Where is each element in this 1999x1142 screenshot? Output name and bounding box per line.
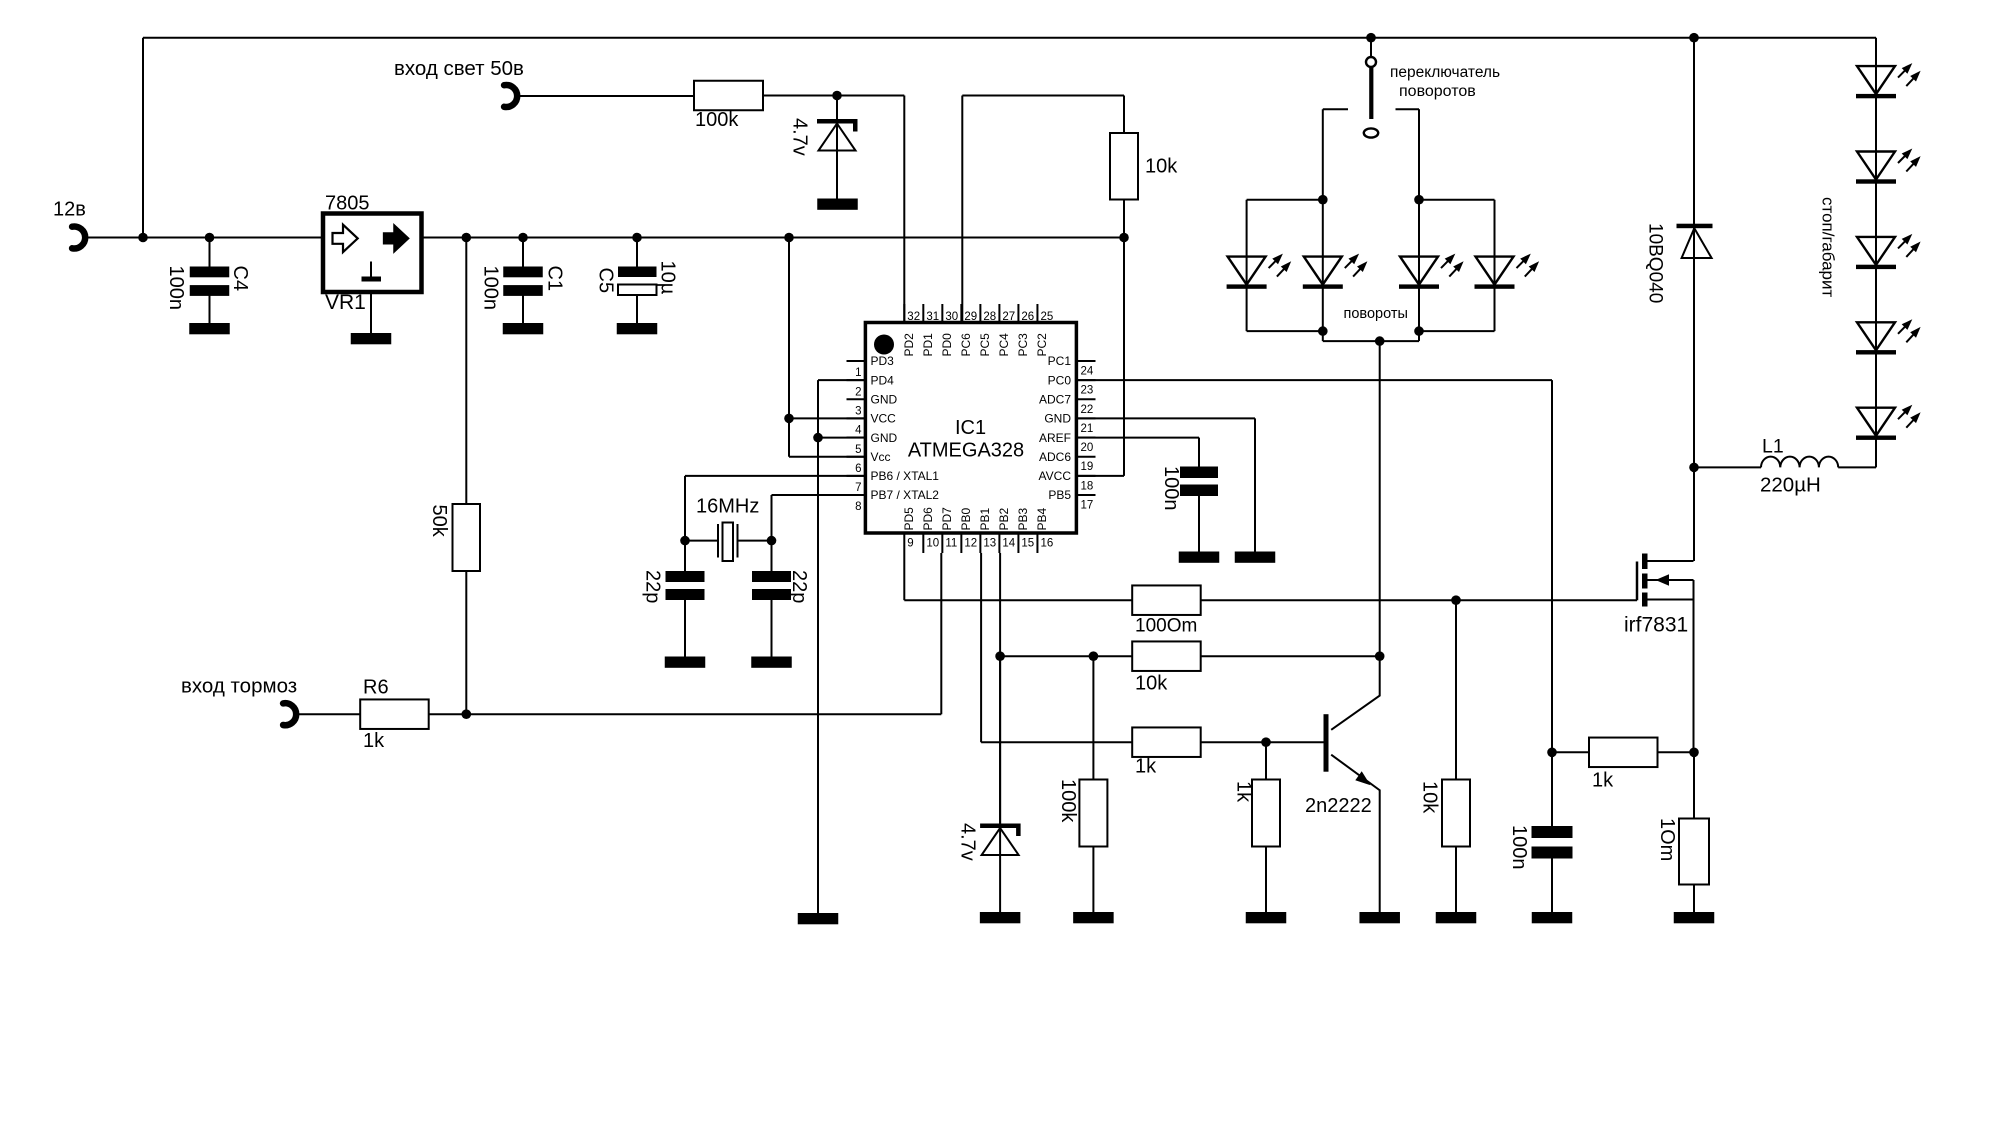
pin 5 GND stub [847, 437, 866, 439]
pin number 6 [855, 463, 861, 475]
svg-text:16MHz: 16MHz [696, 496, 759, 518]
node base 1k tap [1261, 737, 1271, 747]
wire rail to AVCC [1077, 238, 1125, 476]
svg-text:7: 7 [855, 482, 861, 494]
wire 100k upper [1092, 656, 1094, 779]
zener diode 4.7v (light) [817, 96, 858, 199]
svg-text:22p: 22p [642, 570, 664, 603]
svg-text:22: 22 [1081, 404, 1094, 416]
svg-text:19: 19 [1081, 461, 1094, 473]
node crystal left [680, 536, 690, 546]
svg-text:PB4: PB4 [1035, 507, 1049, 530]
svg-text:1k: 1k [1135, 756, 1157, 778]
svg-text:9: 9 [907, 538, 913, 550]
node C1 tap [518, 233, 528, 243]
svg-text:16: 16 [1040, 538, 1053, 550]
ground 1k (base) [1246, 912, 1287, 923]
wire R6 to PD7 [428, 553, 941, 714]
svg-text:220µH: 220µH [1760, 474, 1821, 497]
pin label PB5 [1048, 488, 1071, 502]
pin 18 AVCC stub [1076, 475, 1095, 477]
transistor Q1 2n2222 base bar [1324, 714, 1329, 772]
mosfet source link [1648, 599, 1694, 601]
svg-text:вход свет 50в: вход свет 50в [394, 57, 524, 80]
label irf7831 [1624, 614, 1688, 637]
pin number 26 [1021, 311, 1034, 323]
wire junction to 1k [1552, 751, 1590, 753]
wire source to 1Om [1693, 752, 1695, 818]
svg-text:18: 18 [1081, 480, 1094, 492]
svg-text:ADC6: ADC6 [1039, 450, 1071, 464]
pin 1 PD3 stub [847, 360, 866, 362]
svg-text:стоп/габарит: стоп/габарит [1819, 197, 1838, 298]
wire 100Om to gate [1200, 599, 1637, 601]
svg-text:32: 32 [907, 311, 920, 323]
pin number 25 [1040, 311, 1053, 323]
wire PB2 to 10k [1000, 655, 1133, 657]
diode 10BQ040 [1677, 38, 1713, 561]
label 1k (PB1) [1135, 756, 1157, 778]
label 100k [695, 109, 739, 131]
svg-text:10k: 10k [1419, 781, 1441, 814]
wire to pin4 VCC [789, 417, 866, 419]
label 10k (reset) [1145, 156, 1178, 178]
svg-text:C4: C4 [229, 266, 251, 292]
wire PB2 zener [999, 656, 1001, 823]
svg-text:23: 23 [1081, 385, 1094, 397]
svg-text:4.7v: 4.7v [957, 823, 979, 861]
pin number 29 [964, 311, 977, 323]
svg-text:PD2: PD2 [902, 333, 916, 357]
pin 23 PC0 stub [1076, 379, 1095, 381]
pin number 32 [907, 311, 920, 323]
pin number 1 [855, 367, 861, 379]
svg-text:4.7v: 4.7v [789, 118, 811, 156]
wire 1k to base [1200, 741, 1324, 743]
svg-text:8: 8 [855, 501, 861, 513]
svg-text:100Om: 100Om [1135, 616, 1197, 637]
pin number 12 [964, 538, 977, 550]
label 220µH [1760, 474, 1821, 497]
pin number 30 [945, 311, 958, 323]
pin 6 Vcc stub [847, 456, 866, 458]
led stop D9 [1856, 405, 1921, 440]
filled arrow inside VR1 [384, 225, 409, 252]
node turn center tap [1375, 336, 1385, 346]
label 22p left [642, 570, 664, 603]
label 1k (R6) [363, 730, 385, 752]
transistor Q1 emitter [1331, 755, 1380, 912]
resistor 1k (base) [1252, 780, 1280, 847]
pin 21 GND stub [1076, 417, 1095, 419]
node VCC rail tap [784, 233, 794, 243]
svg-text:100k: 100k [695, 109, 739, 131]
wire 5V rail [422, 237, 1125, 239]
capacitor 100n (AREF) [1180, 467, 1218, 552]
label ATMEGA328 [908, 440, 1024, 462]
svg-text:GND: GND [871, 431, 898, 445]
svg-text:10µ: 10µ [657, 261, 679, 295]
pin label PD4 [871, 373, 895, 387]
pin number 23 [1081, 385, 1094, 397]
pin number 31 [926, 311, 939, 323]
ic IC1 ATMEGA328 body [865, 323, 1076, 534]
pin label PD6 [921, 507, 935, 531]
wire base 1k lower [1265, 847, 1267, 913]
label L1 [1762, 436, 1784, 458]
ground 22p right [751, 657, 792, 668]
node PC0/1k junction [1547, 748, 1557, 758]
svg-text:PD6: PD6 [921, 507, 935, 531]
label R6 [363, 677, 389, 699]
label 100n (AREF) [1160, 466, 1182, 511]
wire turn tops [1247, 199, 1495, 201]
pin 4 VCC stub [847, 417, 866, 419]
pin number 16 [1040, 538, 1053, 550]
label 16MHz [696, 496, 759, 518]
pin label GND [871, 431, 898, 445]
pin number 28 [983, 311, 996, 323]
svg-text:12в: 12в [53, 199, 86, 221]
pin number 19 [1081, 461, 1094, 473]
svg-text:31: 31 [926, 311, 939, 323]
svg-text:100n: 100n [165, 266, 187, 311]
svg-text:PB2: PB2 [997, 507, 1011, 530]
label 10µ [657, 261, 679, 295]
pin label PD0 [940, 333, 954, 357]
label стоп/габарит [1819, 197, 1838, 298]
label C5 [595, 268, 617, 294]
pin number 21 [1081, 423, 1094, 435]
node turn right top [1414, 195, 1424, 205]
pin 32 PD2 stub [903, 304, 905, 323]
led turn D4 [1475, 200, 1540, 331]
label 22p right [788, 570, 810, 603]
pin label ADC6 [1039, 450, 1071, 464]
wire pin2 PD4 link [818, 380, 866, 913]
svg-text:AREF: AREF [1039, 431, 1071, 445]
svg-text:VCC: VCC [871, 412, 897, 426]
wire PB1 down [981, 553, 1133, 742]
ground IC GND line [798, 913, 839, 924]
pin1 mark [874, 335, 894, 355]
pin label PC5 [978, 333, 992, 357]
pin 15 PB3 stub [1017, 533, 1019, 553]
ground C4 [189, 323, 230, 334]
pin label PC3 [1016, 333, 1030, 357]
label 10k (gate) [1419, 781, 1441, 814]
pin label VCC [871, 412, 897, 426]
pin number 22 [1081, 404, 1094, 416]
node 12V/top-rail junction [138, 233, 148, 243]
ground C1 [503, 323, 544, 334]
pin number 10 [926, 538, 939, 550]
svg-text:25: 25 [1040, 311, 1053, 323]
ground emitter [1359, 912, 1400, 923]
pin 13 PB1 stub [979, 533, 981, 553]
pin 31 PD1 stub [922, 304, 924, 323]
connector J1 12в input [72, 227, 85, 249]
pin label Vcc [871, 450, 891, 464]
label 4.7v (PB2) [957, 823, 979, 861]
node 100k tap [1089, 651, 1099, 661]
wire PC0 [1077, 380, 1553, 826]
pin number 2 [855, 386, 861, 398]
resistor 50k [453, 504, 481, 571]
wire switch bracket right [1396, 109, 1420, 200]
pin 17 PB5 stub [1076, 494, 1095, 496]
label 10k (PB2) [1135, 673, 1168, 695]
label 50k [428, 505, 450, 538]
wire source down [1693, 580, 1695, 752]
led turn D2 [1303, 200, 1368, 331]
svg-text:1k: 1k [363, 730, 385, 752]
label C1 [544, 266, 566, 292]
pin 7 PB6 / XTAL1 stub [847, 475, 866, 477]
pin label PD5 [902, 507, 916, 531]
pin number 15 [1021, 538, 1034, 550]
ground VR1 [351, 333, 392, 344]
ground 100k [1073, 912, 1114, 923]
pin number 13 [983, 538, 996, 550]
svg-text:6: 6 [855, 463, 861, 475]
label 100k (PB2) [1057, 779, 1079, 823]
svg-text:29: 29 [964, 311, 977, 323]
svg-text:переключатель: переключатель [1390, 64, 1500, 81]
node source/1k junction [1689, 748, 1699, 758]
ground pin21 [1235, 552, 1276, 563]
inductor L1 [1694, 457, 1876, 468]
label 4.7v (light) [789, 118, 811, 156]
wire to pin6 Vcc [789, 456, 866, 458]
svg-text:100n: 100n [1160, 466, 1182, 511]
mosfet body arrow [1648, 574, 1694, 585]
ground 100n (PC0) [1532, 912, 1573, 923]
svg-text:PD7: PD7 [940, 507, 954, 531]
pin 25 PC2 stub [1036, 304, 1038, 323]
svg-text:PB0: PB0 [959, 507, 973, 530]
pin number 20 [1081, 442, 1094, 454]
svg-text:100n: 100n [1508, 825, 1530, 870]
node turn left top [1318, 195, 1328, 205]
label 7805 [325, 193, 370, 215]
svg-text:GND: GND [1044, 412, 1071, 426]
svg-text:PD1: PD1 [921, 333, 935, 357]
svg-text:3: 3 [855, 405, 861, 417]
wire turn bottoms [1247, 331, 1495, 341]
pin 9 PD5 stub [903, 533, 905, 553]
wire AREF [1077, 438, 1200, 467]
pin label ADC7 [1039, 392, 1071, 406]
node C4 tap [205, 233, 215, 243]
svg-text:15: 15 [1021, 538, 1034, 550]
svg-text:вход тормоз: вход тормоз [181, 675, 297, 698]
wire base 1k upper [1265, 742, 1267, 779]
svg-text:PC0: PC0 [1048, 373, 1072, 387]
svg-text:2n2222: 2n2222 [1305, 795, 1372, 817]
svg-text:28: 28 [983, 311, 996, 323]
node AVCC rail junction [1119, 233, 1129, 243]
svg-text:22p: 22p [788, 570, 810, 603]
ground 10k (gate) [1436, 912, 1477, 923]
ground 1Om [1674, 912, 1715, 923]
connector light input [504, 85, 517, 107]
pin number 27 [1002, 311, 1015, 323]
svg-text:VR1: VR1 [325, 291, 366, 314]
pin label PB1 [978, 507, 992, 530]
wire 1k to source [1657, 751, 1695, 753]
mosfet channel bars [1642, 554, 1648, 607]
svg-text:C1: C1 [544, 266, 566, 292]
label 100Om [1135, 616, 1197, 637]
wire XTAL1 pin7 [685, 476, 866, 541]
pin label GND [871, 392, 898, 406]
svg-text:GND: GND [871, 392, 898, 406]
ground glyph inside VR1 [362, 262, 382, 282]
svg-text:12: 12 [964, 538, 977, 550]
pin 16 PB4 stub [1036, 533, 1038, 553]
pin 14 PB2 stub [998, 533, 1000, 553]
svg-text:PD0: PD0 [940, 333, 954, 357]
pin label GND [1044, 412, 1071, 426]
pin 20 AREF stub [1076, 437, 1095, 439]
label 1k (base) [1233, 781, 1255, 803]
wire switch drop [1370, 38, 1372, 58]
svg-text:PB3: PB3 [1016, 507, 1030, 530]
resistor R6 1k [360, 699, 429, 729]
wire 100k lower [1092, 847, 1094, 913]
wire 10k to rail [1123, 200, 1125, 238]
node pin5 GND junction [813, 433, 823, 443]
pin number 8 [855, 501, 861, 513]
label поворотов [1399, 83, 1476, 100]
pin number 18 [1081, 480, 1094, 492]
ground zener (light) [817, 199, 858, 210]
pin label PC6 [959, 333, 973, 357]
wire PD5 to gate [904, 553, 1133, 600]
led stop D7 [1856, 234, 1921, 269]
pin 12 PB0 stub [960, 533, 962, 553]
node turn left bottom [1318, 326, 1328, 336]
svg-text:повороты: повороты [1344, 306, 1408, 322]
resistor 10k (gate) [1442, 780, 1470, 847]
capacitor 100n (PC0) [1532, 826, 1573, 912]
svg-text:17: 17 [1081, 499, 1094, 511]
svg-text:ADC7: ADC7 [1039, 392, 1071, 406]
wire riser to top rail [142, 38, 144, 238]
svg-text:PC2: PC2 [1035, 333, 1049, 357]
svg-text:C5: C5 [595, 268, 617, 294]
ground 22p left [665, 657, 706, 668]
led turn D3 [1399, 200, 1464, 331]
crystal 16MHz [685, 523, 772, 562]
svg-text:PB6 / XTAL1: PB6 / XTAL1 [871, 469, 940, 483]
led turn D1 [1227, 200, 1292, 331]
transistor Q1 collector [1331, 656, 1380, 730]
svg-text:PC3: PC3 [1016, 333, 1030, 357]
node VCC pin4 junction [784, 414, 794, 424]
label вход свет 50в [394, 57, 524, 80]
pin 24 PC1 stub [1076, 360, 1095, 362]
pin label PD7 [940, 507, 954, 531]
svg-text:20: 20 [1081, 442, 1094, 454]
pin label AREF [1039, 431, 1071, 445]
pin label PD1 [921, 333, 935, 357]
svg-text:1k: 1k [1233, 781, 1255, 803]
label повороты [1344, 306, 1408, 322]
svg-text:27: 27 [1002, 311, 1015, 323]
svg-text:10k: 10k [1135, 673, 1168, 695]
label C4 [229, 266, 251, 292]
pin 30 PD0 stub [941, 304, 943, 323]
svg-text:R6: R6 [363, 677, 389, 699]
wire GND pin21 [1077, 418, 1256, 551]
connector brake input [283, 703, 296, 725]
label 100n (C1) [480, 266, 502, 311]
svg-text:Vcc: Vcc [871, 450, 891, 464]
pin label AVCC [1039, 469, 1072, 483]
svg-text:PC6: PC6 [959, 333, 973, 357]
capacitor C4 [190, 238, 230, 324]
label переключатель [1390, 64, 1500, 81]
wire gate 10k upper [1455, 600, 1457, 779]
svg-text:30: 30 [945, 311, 958, 323]
pin label PB2 [997, 507, 1011, 530]
svg-text:13: 13 [983, 538, 996, 550]
node turn right bottom [1414, 326, 1424, 336]
pin number 7 [855, 482, 861, 494]
pin number 5 [855, 444, 861, 456]
svg-text:4: 4 [855, 425, 862, 437]
switch contact top [1366, 57, 1376, 67]
label 100n (C4) [165, 266, 187, 311]
svg-text:PD4: PD4 [871, 373, 895, 387]
node gate 10k tap [1451, 595, 1461, 605]
node drain/L1 junction [1689, 463, 1699, 473]
pin label PC1 [1048, 354, 1072, 368]
led stop D5 [1856, 63, 1921, 98]
label вход тормоз [181, 675, 297, 698]
node crystal right [767, 536, 777, 546]
pin number 17 [1081, 499, 1094, 511]
wire light input [516, 95, 693, 97]
svg-text:14: 14 [1002, 538, 1015, 550]
wire 10k to collector node [1200, 655, 1380, 657]
node switch rail tap [1366, 33, 1376, 43]
pin label PC0 [1048, 373, 1072, 387]
svg-text:10BQ040: 10BQ040 [1645, 223, 1666, 303]
label 2n2222 [1305, 795, 1372, 817]
pin label PD3 [871, 354, 895, 368]
pin 8 PB7 / XTAL2 stub [847, 494, 866, 496]
capacitor 22p right [752, 541, 791, 657]
svg-text:26: 26 [1021, 311, 1034, 323]
node collector junction [1375, 651, 1385, 661]
pin label PD2 [902, 333, 916, 357]
pin 29 PC6 stub [960, 304, 962, 323]
svg-text:PC5: PC5 [978, 333, 992, 357]
pin number 4 [855, 425, 862, 437]
pin 27 PC4 stub [998, 304, 1000, 323]
wire to pin5 GND [818, 437, 866, 439]
svg-text:100n: 100n [480, 266, 502, 311]
label 10BQ040 [1645, 223, 1666, 303]
svg-text:L1: L1 [1762, 436, 1784, 458]
svg-text:1k: 1k [1592, 770, 1614, 792]
capacitor C1 [503, 238, 543, 324]
svg-text:PD5: PD5 [902, 507, 916, 531]
pin label PB4 [1035, 507, 1049, 530]
